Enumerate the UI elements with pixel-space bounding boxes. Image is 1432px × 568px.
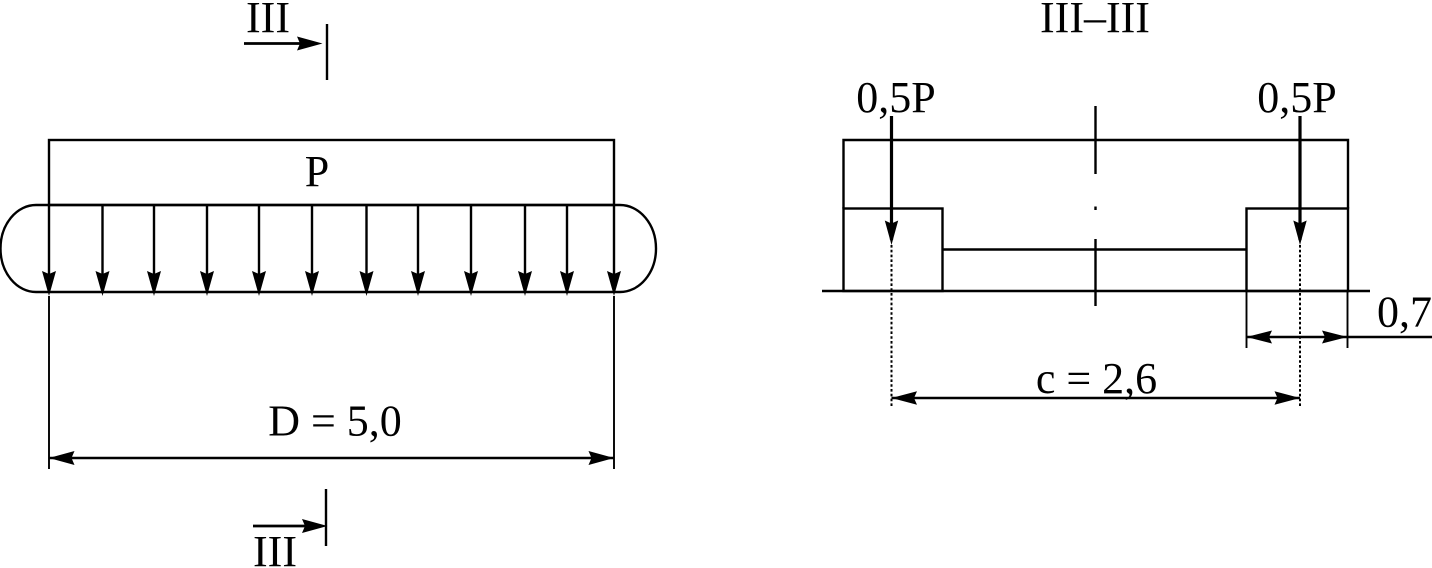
section top slab [844, 140, 1349, 209]
load rectangle P [49, 140, 614, 205]
left wall foot [844, 209, 943, 292]
distributed load arrow 5 [252, 205, 266, 296]
distributed load arrow 12 [607, 205, 621, 296]
section cut arrow (bottom) [253, 519, 328, 533]
svg-text:0,5P: 0,5P [1257, 73, 1336, 122]
dimension line D = 5,0 [49, 451, 614, 465]
section cut line (bottom) [325, 489, 327, 546]
svg-text:0,7: 0,7 [1377, 288, 1432, 337]
centerline (dot) [1094, 207, 1096, 211]
svg-text:III–III: III–III [1040, 0, 1150, 42]
foundation stadium outline [0, 205, 656, 292]
dimension extension line right [613, 296, 615, 469]
dimension line 0,7 [1247, 331, 1432, 344]
extension line foot inner [1246, 291, 1248, 348]
centerline (dash) [1094, 239, 1096, 306]
extension line foot outer [1347, 291, 1349, 348]
distributed load arrow 4 [200, 205, 214, 296]
distributed load arrow 3 [147, 205, 161, 296]
distributed load arrow 11 [560, 205, 574, 296]
svg-text:P: P [305, 147, 329, 196]
distributed load arrow 9 [464, 205, 478, 296]
force arrow 0,5P left [885, 116, 898, 245]
distributed load arrow 1 [42, 205, 56, 296]
dimension line c = 2,6 [892, 391, 1301, 405]
svg-text:D = 5,0: D = 5,0 [268, 397, 402, 446]
distributed load arrow 7 [360, 205, 374, 296]
svg-text:III: III [246, 0, 290, 42]
dimension extension line left [48, 296, 50, 469]
force arrow 0,5P right [1293, 116, 1306, 245]
distributed load arrow 6 [305, 205, 319, 296]
centerline (dash) [1094, 106, 1096, 174]
inner bottom edge line [943, 248, 1247, 250]
right wall foot [1247, 209, 1349, 292]
section cut arrow (top) [244, 37, 323, 51]
section cut line (top) [326, 24, 328, 80]
svg-text:0,5P: 0,5P [856, 73, 935, 122]
force extension line right [1299, 245, 1301, 406]
force extension line left [891, 245, 893, 406]
distributed load arrow 8 [411, 205, 425, 296]
ground line [822, 290, 1370, 292]
distributed load arrow 2 [96, 205, 110, 296]
svg-text:III: III [253, 527, 297, 568]
svg-text:c = 2,6: c = 2,6 [1036, 354, 1157, 403]
distributed load arrow 10 [518, 205, 532, 296]
